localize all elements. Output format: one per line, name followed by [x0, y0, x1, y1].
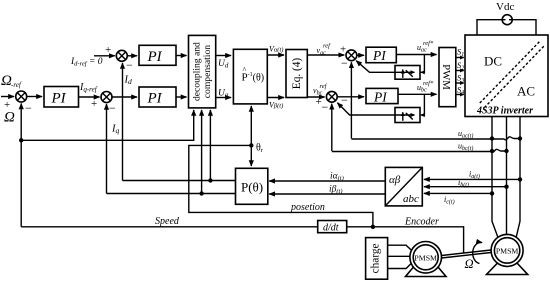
wire uac-ref to PWM	[396, 54, 436, 56]
wire J5 to PI5	[337, 96, 364, 98]
wire ib(t)	[424, 185, 509, 189]
wire phase a vertical	[492, 117, 498, 238]
wire Iq feedback row	[107, 191, 236, 195]
block alphabeta-abc transform	[385, 167, 422, 206]
shaft	[442, 250, 492, 258]
svg-text:−: −	[126, 58, 133, 72]
svg-text:Id: Id	[124, 75, 133, 87]
wire tap uac to limiter1	[421, 55, 425, 73]
svg-text:S1: S1	[457, 47, 464, 59]
svg-text:d/dt: d/dt	[323, 223, 339, 234]
wire d/dt to encoder junction	[347, 225, 375, 229]
svg-text:Vdc: Vdc	[496, 1, 514, 13]
svg-text:αβ: αβ	[389, 174, 401, 186]
wire speed feedback vertical	[20, 104, 22, 227]
svg-text:PI: PI	[373, 89, 388, 104]
PI controller PI4	[366, 47, 396, 63]
wire theta-r net	[249, 106, 253, 166]
svg-text:Ud: Ud	[218, 59, 229, 70]
svg-text:Speed: Speed	[155, 216, 180, 227]
wire ibeta	[269, 193, 385, 195]
wire iq branch to decoupling	[201, 110, 203, 194]
svg-text:−: −	[109, 101, 116, 115]
svg-text:posetion: posetion	[290, 202, 325, 213]
summing junction J5 vbc	[326, 91, 337, 102]
wire PI2 to decoupling	[176, 96, 187, 98]
svg-text:Vα(t): Vα(t)	[269, 45, 283, 54]
summing junction J2 Iq	[101, 92, 112, 103]
source Vdc	[496, 1, 514, 25]
wire encoder line	[373, 227, 464, 253]
wire PI3 to decoupling	[176, 55, 187, 57]
block Eq. (4)	[286, 50, 307, 98]
wire ia(t)	[424, 177, 522, 181]
svg-text:PI: PI	[372, 48, 387, 63]
PI controller PI5	[366, 88, 398, 104]
svg-text:ref: ref	[323, 43, 331, 50]
svg-text:iα(t): iα(t)	[330, 172, 344, 183]
node uac-ref-star label	[417, 40, 434, 54]
svg-text:PWM: PWM	[440, 64, 452, 90]
block charge	[366, 238, 388, 280]
wire ialpha	[269, 180, 385, 182]
svg-text:Id-ref = 0: Id-ref = 0	[70, 57, 103, 68]
svg-text:ic(t): ic(t)	[444, 195, 455, 206]
wire uac measured feedback vertical	[350, 62, 352, 138]
svg-text:+: +	[91, 98, 97, 110]
wire posetion net	[189, 145, 373, 226]
wire Id feedback vertical	[122, 63, 124, 181]
machine PMSM left	[410, 241, 442, 273]
wire charge to motor top	[388, 245, 412, 250]
machine PMSM left stand	[406, 264, 447, 277]
wire Vdc bus	[477, 20, 502, 35]
wire vac-ref to J4	[307, 54, 344, 56]
wire omega to decoupling	[21, 110, 194, 140]
block decoupling and compensation	[189, 35, 216, 108]
svg-text:PI: PI	[51, 91, 67, 107]
svg-text:compensation: compensation	[202, 45, 213, 98]
node vbc-ref label	[313, 83, 328, 97]
wire S4	[456, 94, 464, 96]
svg-text:uac(t): uac(t)	[458, 129, 473, 140]
svg-text:^: ^	[243, 66, 247, 75]
svg-text:ia(t): ia(t)	[469, 170, 480, 181]
svg-text:ubc(t): ubc(t)	[458, 142, 473, 153]
PI controller PI3	[139, 45, 176, 65]
svg-text:abc: abc	[403, 193, 419, 205]
svg-text:S2: S2	[457, 60, 464, 72]
svg-text:Eq. (4): Eq. (4)	[291, 58, 303, 90]
wire Vdc bus right	[512, 20, 536, 35]
svg-text:PI: PI	[147, 91, 163, 107]
svg-text:ref*: ref*	[423, 40, 434, 47]
wire S1	[456, 57, 464, 59]
wire Ud	[216, 55, 231, 57]
svg-text:PI: PI	[147, 49, 163, 65]
svg-text:−: −	[25, 101, 32, 115]
svg-text:PMSM: PMSM	[496, 246, 519, 255]
svg-text:+: +	[105, 44, 111, 56]
wire ubc measured feedback vertical	[331, 104, 333, 151]
svg-text:-ref: -ref	[11, 81, 22, 89]
wire J1 to PI1	[27, 96, 42, 98]
wire tap ubc to limiter2	[421, 94, 425, 115]
PI controller PI1	[44, 87, 79, 108]
svg-text:4S3P inverter: 4S3P inverter	[476, 106, 533, 117]
block Park transform P(theta)	[236, 168, 268, 204]
wire J3 to PI3	[128, 55, 138, 57]
wire phase c vertical	[516, 117, 520, 238]
wire PI1 to J2	[79, 96, 100, 98]
svg-text:Ω: Ω	[4, 110, 15, 126]
node ubc-ref-star label	[417, 80, 434, 94]
summing junction J3 Id	[116, 50, 127, 61]
rotation arrow Omega	[473, 242, 482, 263]
svg-text:+: +	[340, 44, 346, 56]
block inverse Park transform P^-1(theta)	[233, 49, 267, 104]
wire limiter1 to J4	[356, 61, 395, 73]
svg-text:DC: DC	[484, 54, 502, 69]
wire charge to motor mid	[388, 255, 410, 257]
block PWM	[439, 48, 456, 107]
wire Vbeta	[267, 97, 284, 99]
limiter block L2	[395, 108, 420, 123]
wire id branch to decoupling	[209, 110, 211, 181]
svg-text:θr: θr	[256, 143, 264, 155]
wire S2	[456, 70, 464, 72]
wire Id feedback row	[123, 178, 236, 182]
wire uac(t) measurement	[351, 136, 522, 140]
svg-text:AC: AC	[517, 84, 535, 99]
junction dot omega branch	[19, 138, 23, 142]
svg-text:−: −	[341, 56, 348, 70]
svg-text:Iq-ref: Iq-ref	[79, 82, 98, 94]
wire input to speed summing junction	[1, 96, 14, 98]
svg-text:Encoder: Encoder	[404, 217, 439, 228]
summing junction J4 vac	[346, 50, 357, 61]
wire Valpha	[267, 54, 284, 56]
summing junction J1 speed	[16, 91, 27, 102]
svg-text:ref: ref	[320, 83, 328, 90]
wire limiter2 to J5	[337, 103, 395, 115]
PI controller PI2	[139, 87, 176, 107]
svg-text:−: −	[341, 93, 348, 107]
limiter block L1	[395, 66, 420, 80]
svg-text:−: −	[322, 100, 329, 114]
wire ic(t)	[424, 191, 494, 195]
machine PMSM right stand	[487, 263, 528, 275]
svg-text:ref*: ref*	[423, 80, 434, 87]
svg-text:S3: S3	[457, 73, 464, 85]
svg-text:Ω: Ω	[465, 257, 474, 271]
block d/dt	[318, 221, 347, 234]
svg-text:decoupling and: decoupling and	[192, 42, 203, 101]
svg-text:iβ(t): iβ(t)	[329, 185, 343, 196]
block 4S3P inverter	[465, 35, 548, 117]
wire Iq feedback vertical	[106, 104, 108, 194]
wire J2 to PI2	[112, 96, 137, 98]
wire phase b vertical	[506, 117, 508, 235]
node vac-ref label	[317, 43, 332, 57]
machine PMSM right	[491, 234, 523, 266]
wire speed row	[21, 226, 318, 228]
svg-text:Vβ(t): Vβ(t)	[269, 101, 283, 110]
wire input to J3	[94, 55, 115, 57]
wire charge to motor bottom	[388, 263, 412, 268]
wire J4 to PI4	[357, 54, 364, 56]
svg-text:Iq: Iq	[111, 124, 120, 136]
svg-text:charge: charge	[370, 243, 382, 273]
node Omega-ref label	[1, 73, 22, 89]
svg-text:PMSM: PMSM	[414, 253, 437, 262]
wire ubc-ref to PWM	[398, 93, 437, 95]
svg-text:S4: S4	[457, 85, 464, 97]
wire ubc(t) measurement	[332, 149, 509, 153]
svg-text:P(θ): P(θ)	[241, 180, 263, 195]
wire S3	[456, 82, 464, 84]
wire vbc-ref to J5	[307, 96, 324, 98]
wire Uq	[216, 97, 231, 99]
svg-text:Uq: Uq	[218, 89, 229, 100]
